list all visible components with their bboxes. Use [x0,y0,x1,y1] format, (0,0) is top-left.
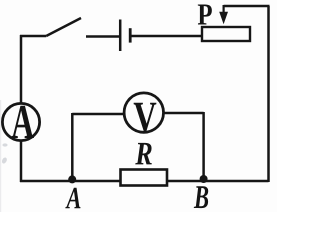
wire battery to rheostat [132,35,203,38]
wire top-left horizontal [20,35,46,38]
battery positive plate (long) [119,20,122,52]
voltmeter [124,93,163,132]
node B (junction dot) [200,175,208,183]
label A [65,188,80,208]
wire switch to battery [86,35,119,38]
wire node B up to voltmeter branch [202,112,205,182]
battery negative plate (short) [129,28,132,42]
wire wiper to top-right corner [224,5,270,8]
switch S (open blade) [46,18,81,36]
label P [198,4,212,24]
wire right vertical [267,6,270,182]
ammeter [2,103,39,140]
wire node A up to voltmeter branch [71,113,74,182]
label B [194,186,208,208]
resistor R body [121,170,168,186]
rheostat wiper arrow [219,5,228,24]
node A (junction dot) [68,175,76,183]
rheostat P (slide resistor body) [202,27,250,41]
wire voltmeter left branch horizontal [72,113,125,116]
wire left vertical (bottom) [20,140,23,182]
scan smudge artifacts (left margin) [0,100,8,212]
wire bottom rail [20,180,269,183]
wire left vertical (top) [20,35,23,104]
label R [135,143,152,164]
wire voltmeter right branch horizontal [163,112,204,115]
